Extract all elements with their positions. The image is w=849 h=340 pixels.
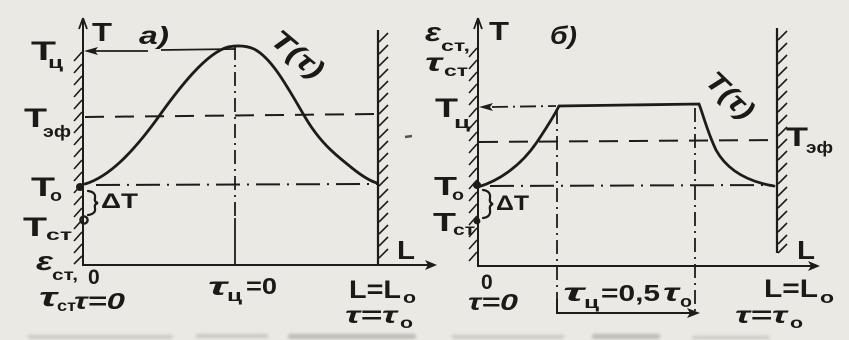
temperature curve T(tau) (graph b) <box>478 104 774 187</box>
svg-text:ΔT: ΔT <box>496 192 529 215</box>
svg-text:о: о <box>820 288 834 307</box>
svg-text:T: T <box>489 16 509 46</box>
Tst dot marker (graph b) <box>474 218 481 225</box>
svg-text:о: о <box>680 292 692 311</box>
Tc level line (graph a) <box>95 49 236 51</box>
Tc line arrowhead at axis <box>84 47 98 55</box>
svg-text:=0: =0 <box>246 273 277 299</box>
right wall hatching (graph a) <box>379 33 388 258</box>
svg-text:τ: τ <box>663 279 682 307</box>
svg-text:эф: эф <box>806 138 833 157</box>
svg-text:τ=τ: τ=τ <box>735 302 790 328</box>
svg-text:ст,: ст, <box>441 38 470 55</box>
right wall line (graph a) <box>377 30 379 265</box>
svg-text:б): б) <box>550 22 577 50</box>
Teff dashed line (graph b) <box>479 140 778 142</box>
svg-text:ц: ц <box>454 113 471 132</box>
Tc line arrowhead at axis (graph b) <box>479 103 493 111</box>
delta-T brace (graph a) <box>88 191 98 215</box>
svg-text:L=L: L=L <box>349 276 401 304</box>
center vertical dash-dot line (graph a) <box>234 46 236 218</box>
dimension line under axis (graph b) <box>557 299 694 313</box>
bottom scan smudge band <box>28 334 770 339</box>
delta-T brace (graph b) <box>483 190 493 218</box>
right wall hatching (graph b) <box>778 31 787 253</box>
svg-text:а): а) <box>139 22 169 50</box>
svg-text:τ=τ: τ=τ <box>345 302 400 328</box>
svg-text:ε: ε <box>425 17 442 47</box>
svg-text:ц: ц <box>48 53 64 72</box>
svg-text:=0,5: =0,5 <box>601 280 660 306</box>
svg-text:ц: ц <box>584 293 600 312</box>
To dash-dot line (graph b) <box>490 185 772 186</box>
Tst open circle marker (graph a) <box>80 216 87 223</box>
To dot marker (graph a) <box>76 183 84 191</box>
svg-text:о: о <box>50 186 62 205</box>
svg-text:ст: ст <box>444 63 468 80</box>
right wall line (graph b) <box>776 28 778 253</box>
y-axis (graph b) <box>474 18 482 266</box>
svg-text:0: 0 <box>88 266 100 289</box>
svg-text:T: T <box>92 17 112 47</box>
left vertical dash-dot line (graph b) <box>556 110 558 313</box>
hatching on y-axis wall (graph b) <box>469 48 477 261</box>
svg-text:ст: ст <box>453 222 475 239</box>
svg-text:о: о <box>400 315 413 332</box>
svg-text:эф: эф <box>43 122 71 141</box>
svg-text:τ=0: τ=0 <box>74 288 125 314</box>
To dot marker (graph b) <box>473 181 481 189</box>
svg-text:ΔT: ΔT <box>101 190 138 213</box>
Teff dashed line (graph a) <box>85 114 377 117</box>
x-axis arrowhead (graph b) <box>808 261 820 271</box>
stray dash mark between graphs <box>405 136 412 137</box>
temperature curve T(tau) (graph a) <box>85 46 377 184</box>
svg-text:L: L <box>397 235 415 265</box>
dimension line right arrowhead <box>687 308 700 318</box>
svg-text:τ=0: τ=0 <box>468 289 518 315</box>
svg-text:о: о <box>452 187 464 204</box>
svg-text:L: L <box>797 235 815 265</box>
hatching on y-axis wall (graph a) <box>74 52 82 264</box>
x-axis arrowhead (graph a) <box>425 260 437 270</box>
x-axis (graph b) <box>477 265 813 267</box>
Tc dash-dot line (graph b) <box>492 106 556 107</box>
svg-text:о: о <box>403 288 416 307</box>
svg-text:о: о <box>790 315 803 332</box>
svg-text:Т: Т <box>23 212 48 242</box>
svg-text:τ: τ <box>425 49 445 77</box>
svg-text:ц: ц <box>227 286 243 305</box>
y-axis (graph a) <box>79 18 87 265</box>
To dash-dot line (graph a) <box>96 184 377 185</box>
svg-text:ст: ст <box>46 227 72 244</box>
x-axis (graph a) <box>82 264 430 266</box>
svg-text:L=L: L=L <box>764 275 818 303</box>
right vertical dash-dot line (graph b) <box>694 108 696 313</box>
